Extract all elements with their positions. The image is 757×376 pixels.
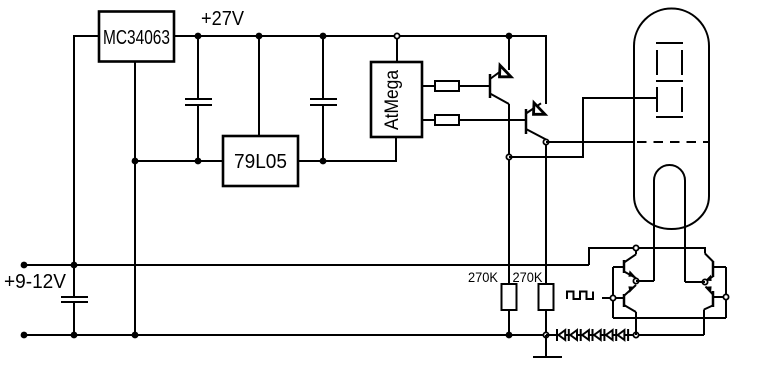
node R2 / diodes / ground (open) bbox=[543, 332, 548, 337]
node filament left (open) bbox=[633, 278, 638, 283]
diode D1 bbox=[557, 329, 565, 341]
wire C2 bottom bbox=[197, 105, 199, 161]
diode D7 cathode bar bbox=[627, 329, 629, 341]
resistor R2 270K bbox=[539, 284, 554, 310]
wire C3 top bbox=[322, 36, 324, 99]
wire AtMega to R4 bbox=[422, 119, 435, 121]
node ground rail / R1 bbox=[506, 332, 513, 339]
wire C2 top bbox=[197, 36, 199, 99]
IC U3 AtMega bbox=[371, 62, 422, 137]
segment c (lower-right) bbox=[681, 87, 683, 112]
segment d (bottom) bbox=[656, 116, 683, 118]
wire filament left to node bbox=[636, 280, 654, 282]
wire 79L05 input pin bbox=[258, 36, 260, 136]
wire U1 left pin to input cap branch bbox=[74, 36, 99, 297]
diode D4 bbox=[593, 329, 601, 341]
svg-text:270K: 270K bbox=[513, 269, 544, 285]
node bridge rail / Q3 (open) bbox=[633, 245, 638, 250]
resistor R3 bbox=[435, 81, 459, 91]
svg-text:79L05: 79L05 bbox=[234, 151, 287, 173]
wire 5V rail right to AtMega bbox=[298, 137, 396, 161]
node right base rail (open) bbox=[723, 294, 728, 299]
wire C1 bottom to ground rail bbox=[73, 302, 75, 335]
wire input rail y265 bbox=[24, 264, 589, 266]
segment f (upper-left) bbox=[656, 50, 658, 75]
wire U1 bottom pin bbox=[134, 61, 136, 335]
segment g (middle) bbox=[656, 80, 683, 82]
square wave symbol bbox=[567, 292, 593, 300]
node left base rail (open) bbox=[610, 295, 615, 300]
wire AtMega to R3 bbox=[422, 85, 435, 87]
node rail / C2 bbox=[195, 33, 202, 40]
wire bridge supply jog bbox=[589, 248, 705, 265]
svg-text:+9-12V: +9-12V bbox=[4, 271, 67, 293]
wire R2 bottom bbox=[545, 310, 547, 335]
diode D6 bbox=[616, 329, 624, 341]
svg-text:270K: 270K bbox=[468, 269, 499, 285]
filament dome and legs bbox=[654, 165, 685, 282]
transistor Q5 (bridge top-right) bbox=[705, 254, 713, 282]
svg-text:AtMega: AtMega bbox=[382, 70, 403, 130]
capacitor C3 bbox=[310, 99, 337, 105]
wire C3 bottom bbox=[322, 105, 324, 161]
node input rail / C1 bbox=[71, 262, 78, 269]
node Q2 collector (open) bbox=[543, 139, 548, 144]
wire Q4 collector down bbox=[635, 312, 637, 335]
wire anode: Q1 collector to display segment bbox=[509, 98, 657, 157]
capacitor C1 bbox=[61, 297, 88, 302]
wire R1 bottom bbox=[508, 310, 510, 335]
wire input stub to bridge bases bbox=[602, 297, 613, 299]
node rail / Q1 bbox=[506, 33, 513, 40]
IC U2 79L05 bbox=[223, 136, 298, 186]
node ground rail / C1 bbox=[71, 332, 78, 339]
svg-text:MC34063: MC34063 bbox=[103, 27, 170, 49]
transistor Q4 (bridge bottom-left) bbox=[624, 285, 636, 312]
node diode end / bridge (open) bbox=[633, 332, 638, 337]
node rail / C3 bbox=[320, 33, 327, 40]
node Q1 collector (open) bbox=[506, 154, 511, 159]
node 5V rail / C3 bbox=[320, 158, 327, 165]
transistor Q2 bbox=[526, 103, 546, 140]
segment e (lower-left) bbox=[656, 87, 658, 112]
IC U1 MC34063 bbox=[99, 12, 174, 62]
transistor Q3 (bridge top-left) bbox=[624, 248, 636, 278]
wire grid dashed inside tube bbox=[637, 141, 709, 143]
wire Q2 collector down to R2 bbox=[545, 140, 547, 285]
diode D2 bbox=[569, 329, 577, 341]
wire left base rail bbox=[613, 267, 624, 318]
node rail / AtMega (open) bbox=[394, 33, 399, 38]
transistor Q1 bbox=[490, 36, 511, 104]
wire R3 to Q1 base bbox=[459, 85, 490, 87]
node filament right (open) bbox=[702, 279, 707, 284]
diode D5 bbox=[604, 329, 612, 341]
resistor R4 bbox=[435, 115, 459, 125]
wire right base rail bbox=[713, 267, 726, 318]
wire R4 to Q2 base bbox=[459, 119, 526, 121]
wire Q1 collector down to R1 bbox=[508, 104, 510, 284]
wire filament return y335 with diode string bbox=[546, 334, 704, 336]
wire base cross y318 bbox=[613, 317, 726, 319]
node ground rail / U1 pin bbox=[132, 332, 139, 339]
capacitor C2 bbox=[185, 99, 212, 105]
transistor Q6 (bridge bottom-right) bbox=[704, 286, 713, 309]
terminal 0V bbox=[21, 332, 28, 339]
node rail / 79L05 bbox=[256, 33, 263, 40]
svg-text:+27V: +27V bbox=[201, 8, 245, 30]
wire filament right to node bbox=[685, 281, 705, 283]
node 5V rail / C2 bbox=[195, 158, 202, 165]
segment a (top) bbox=[656, 42, 683, 44]
segment b (upper-right) bbox=[681, 50, 683, 75]
wire AtMega top pin bbox=[396, 36, 398, 62]
VFD tube envelope bbox=[634, 9, 709, 230]
node 5V rail / U1 pin bbox=[132, 158, 139, 165]
ground bbox=[533, 335, 562, 357]
wire ground rail y335 bbox=[24, 334, 546, 336]
diode D3 bbox=[581, 329, 589, 341]
wire 5V rail left bbox=[135, 160, 223, 162]
wire Q6 collector down bbox=[703, 310, 705, 336]
resistor R1 270K bbox=[502, 284, 517, 310]
wire +27V rail bbox=[174, 36, 546, 104]
terminal +9-12V bbox=[21, 262, 28, 269]
wire grid: Q2 collector to tube bbox=[546, 141, 634, 143]
